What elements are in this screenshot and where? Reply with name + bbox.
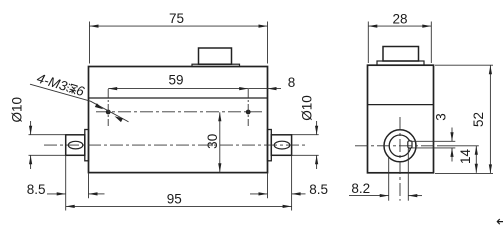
dimension 8 xyxy=(248,88,281,90)
svg-text:14: 14 xyxy=(458,149,473,165)
svg-text:8.5: 8.5 xyxy=(309,182,328,197)
shaft inner circle xyxy=(389,135,411,157)
main horizontal centerline xyxy=(44,144,306,146)
body outline xyxy=(89,67,268,173)
leader arrow upper xyxy=(95,103,104,111)
svg-text:3: 3 xyxy=(434,113,449,121)
leader underline xyxy=(30,84,91,101)
left collar xyxy=(85,130,89,161)
screw-hole centerline xyxy=(96,111,262,113)
right shaft hole (ellipse) xyxy=(274,141,290,149)
side body inner line xyxy=(368,104,434,106)
leader arrow lower xyxy=(113,114,122,122)
left screw hole dot xyxy=(106,110,111,115)
dimension 75 xyxy=(90,22,268,64)
side body outline xyxy=(368,65,434,173)
side horizontal centerline xyxy=(355,145,438,147)
dimension 28 xyxy=(368,22,431,64)
right screw hole dot xyxy=(246,110,251,115)
dimension 52 xyxy=(435,65,493,173)
svg-text:Ø10: Ø10 xyxy=(299,95,314,121)
connector base plate xyxy=(192,64,240,66)
dimension 95 xyxy=(66,205,292,207)
svg-text:8.2: 8.2 xyxy=(351,181,370,196)
dimension 8.5 left xyxy=(47,155,105,210)
left screw hole vertical centerline xyxy=(107,89,109,126)
keyway xyxy=(408,141,412,148)
body inner line xyxy=(89,97,268,99)
svg-text:75: 75 xyxy=(169,11,184,26)
right screw hole vertical centerline xyxy=(247,89,249,126)
svg-text:↵: ↵ xyxy=(496,213,503,228)
svg-text:28: 28 xyxy=(392,12,407,27)
dimension 3 xyxy=(410,128,455,162)
dimension diameter 10 right xyxy=(292,121,319,169)
right shaft xyxy=(271,135,291,156)
dimension 8.5 right xyxy=(250,155,306,210)
side connector plate xyxy=(377,61,424,65)
svg-text:59: 59 xyxy=(168,72,183,87)
svg-text:8: 8 xyxy=(288,75,296,90)
shaft outer circle xyxy=(384,130,416,162)
left shaft hole (ellipse) xyxy=(68,141,83,149)
dimension diameter 10 left xyxy=(29,121,67,169)
dimension 30 xyxy=(219,112,221,172)
side connector block xyxy=(383,47,419,62)
svg-text:95: 95 xyxy=(167,192,182,207)
dimension 59 xyxy=(108,88,248,90)
connector block xyxy=(199,48,232,64)
left shaft xyxy=(66,135,85,156)
leader line xyxy=(91,101,129,122)
right collar xyxy=(268,130,272,161)
side vertical centerline xyxy=(399,117,401,201)
hand-drawn shen (deep) glyph xyxy=(66,83,78,94)
label 4-M3 deep 6 xyxy=(35,71,86,100)
dimension 14 xyxy=(438,146,479,173)
svg-text:8.5: 8.5 xyxy=(27,182,46,197)
svg-text:Ø10: Ø10 xyxy=(10,97,25,123)
dimension 8.2 xyxy=(349,149,422,201)
svg-text:52: 52 xyxy=(471,112,486,127)
svg-text:30: 30 xyxy=(205,134,220,149)
